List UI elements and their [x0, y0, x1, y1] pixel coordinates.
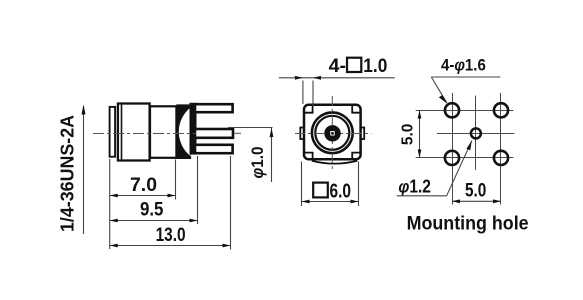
4-sq1.0 label — [329, 55, 388, 77]
4-sq1.0 extension lines — [303, 81, 313, 107]
corner tab top-right — [352, 106, 360, 113]
thread leader line — [82, 105, 86, 235]
phi1.0 dim line — [270, 128, 274, 182]
corner tab bottom-right — [352, 153, 360, 159]
left side bump — [300, 128, 305, 140]
dim 7.0 — [110, 175, 176, 197]
inner circle — [315, 116, 349, 150]
flange square — [304, 105, 361, 159]
svg-text:5.0: 5.0 — [400, 124, 417, 146]
svg-text:1.0: 1.0 — [363, 55, 387, 77]
column centerline left — [452, 93, 454, 205]
dim 9.5 — [110, 200, 198, 223]
svg-text:4-φ1.6: 4-φ1.6 — [441, 57, 486, 75]
svg-text:φ1.0: φ1.0 — [249, 147, 267, 179]
nut hex line — [121, 105, 123, 160]
nut — [118, 104, 150, 161]
corner tab bottom-left — [305, 153, 313, 159]
center pin — [195, 129, 233, 138]
spine (insulator body) — [190, 103, 197, 155]
row centerline bottom — [416, 157, 514, 159]
svg-text:φ1.2: φ1.2 — [398, 176, 431, 196]
sq6.0 extension lines — [302, 162, 359, 207]
washer — [110, 107, 116, 157]
hole bottom-right — [494, 151, 508, 165]
svg-text:13.0: 13.0 — [156, 225, 186, 246]
4-sq1.0 leader line — [279, 77, 395, 79]
column centerline right — [500, 93, 502, 205]
svg-text:5.0: 5.0 — [465, 180, 486, 202]
dim 7.0 extension lines — [110, 159, 176, 249]
phi1.2 label — [397, 141, 472, 197]
4-phi1.6 leader — [431, 77, 500, 104]
hole top-right — [494, 103, 508, 117]
bottom leg — [195, 145, 233, 153]
hole bottom-left — [445, 151, 459, 165]
dim 5.0 vertical — [400, 111, 422, 158]
dim 9.5 extension line — [197, 156, 199, 224]
center contact (filled) — [324, 125, 340, 141]
row centerline top — [416, 110, 514, 112]
4-sq1.0 arrows — [295, 76, 321, 80]
center hole crosshair — [437, 96, 515, 171]
right side bump — [359, 128, 364, 140]
centerline stub right of pin — [234, 132, 241, 134]
dim 13.0 — [110, 225, 231, 247]
center hole — [471, 128, 481, 138]
top leg — [195, 104, 233, 112]
centerline — [93, 133, 196, 135]
flange (filled with white arc lens) — [176, 104, 191, 159]
hole top-left — [445, 103, 459, 117]
svg-text:1/4-36UNS-2A: 1/4-36UNS-2A — [57, 115, 78, 232]
svg-text:9.5: 9.5 — [140, 200, 164, 221]
centerline horizontal — [295, 133, 372, 135]
svg-text:4-: 4- — [329, 55, 346, 77]
svg-text:6.0: 6.0 — [330, 181, 352, 203]
phi1.0 dim extension line — [228, 127, 273, 129]
dim 13.0 extension line — [230, 156, 232, 250]
svg-text:Mounting hole: Mounting hole — [407, 214, 529, 235]
centerline vertical — [331, 96, 333, 170]
svg-text:7.0: 7.0 — [130, 175, 157, 196]
barrel — [150, 106, 176, 158]
sq6.0 dim — [302, 181, 359, 204]
bottom bushing arc — [312, 161, 358, 164]
corner tab top-left — [305, 106, 313, 113]
dim 5.0 horizontal — [452, 180, 501, 204]
outer circle — [312, 112, 353, 153]
